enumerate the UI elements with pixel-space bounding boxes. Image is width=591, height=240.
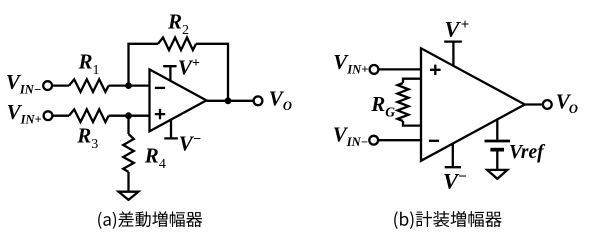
op-amp U1 xyxy=(150,69,207,131)
wire: feedback loop R2 xyxy=(129,44,229,101)
Vref source plate long xyxy=(485,140,511,143)
wire: Vref branch from output stage xyxy=(496,119,498,169)
op-amp U2 minus input marking xyxy=(429,140,439,142)
svg-text:VIN+: VIN+ xyxy=(7,100,42,127)
V+ supply stub (b) xyxy=(444,42,462,66)
resistor R2 xyxy=(158,38,196,51)
resistor R4 xyxy=(123,134,134,172)
op-amp U1 minus input marking xyxy=(155,87,165,89)
node: output junction xyxy=(225,97,232,104)
terminal VIN- (b) xyxy=(369,136,378,145)
resistor R3 xyxy=(69,109,109,122)
svg-text:V−: V− xyxy=(179,131,202,155)
ground (b) xyxy=(487,170,507,179)
ground (a) xyxy=(119,192,139,200)
svg-text:V+: V+ xyxy=(444,16,469,41)
op-amp U2 plus input marking xyxy=(430,65,441,75)
Vref source plate short xyxy=(490,148,504,152)
caption (b) xyxy=(394,211,502,229)
terminal VO (a) xyxy=(254,96,263,105)
wire: VIN- lead (b) xyxy=(378,139,421,141)
terminal VIN+ xyxy=(44,111,53,120)
wire: VIN+ lead to op-amp non-inverting input xyxy=(53,115,150,117)
svg-text:R2: R2 xyxy=(167,10,189,38)
svg-text:VO: VO xyxy=(556,90,578,116)
wire: op-amp output to VO terminal xyxy=(206,100,253,102)
svg-text:Vref: Vref xyxy=(509,142,546,163)
svg-text:R4: R4 xyxy=(144,144,166,172)
resistor RG xyxy=(398,83,409,121)
resistor R1 xyxy=(69,79,109,92)
terminal VIN- xyxy=(43,81,52,90)
V+ supply stub (a) xyxy=(163,66,176,81)
V- supply stub (a) xyxy=(164,120,178,139)
svg-text:VO: VO xyxy=(269,87,292,113)
svg-text:R3: R3 xyxy=(76,124,98,152)
node: non-inverting input junction xyxy=(125,112,132,119)
svg-text:VIN−: VIN− xyxy=(333,123,368,150)
svg-text:RG: RG xyxy=(370,92,395,119)
wire: VIN- lead to op-amp inverting input xyxy=(52,84,149,86)
svg-text:R1: R1 xyxy=(78,50,100,78)
svg-text:VIN+: VIN+ xyxy=(333,50,368,77)
svg-text:VIN−: VIN− xyxy=(6,70,41,97)
svg-text:V+: V+ xyxy=(178,55,200,79)
node: inverting input junction xyxy=(125,82,132,89)
wire: VIN+ lead (b) xyxy=(378,68,421,70)
op-amp U1 plus input marking xyxy=(155,109,165,119)
op-amp U2 xyxy=(421,48,525,161)
V- supply stub (b) xyxy=(445,144,461,168)
caption (a) xyxy=(98,211,202,229)
svg-text:V−: V− xyxy=(443,169,467,194)
terminal VO (b) xyxy=(543,100,552,109)
wire: R4 branch to ground xyxy=(127,116,129,192)
wire: RG jogs xyxy=(403,79,421,126)
terminal VIN+ (b) xyxy=(370,65,379,74)
wire: output (b) xyxy=(525,103,543,105)
